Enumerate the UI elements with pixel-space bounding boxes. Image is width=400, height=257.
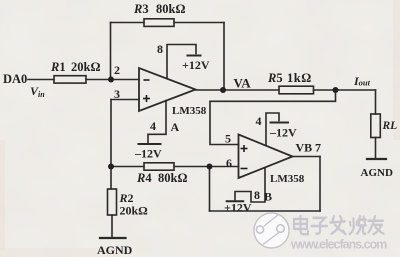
wire: DA0 input lead (28, 79, 54, 81)
svg-text:8: 8 (157, 42, 163, 56)
power +12V bar (op-amp A pin 8) (188, 55, 201, 57)
wire: feedback up to pin 6 node (209, 167, 211, 212)
svg-text:www.elecfans.com: www.elecfans.com (290, 238, 387, 252)
resistor R4 (144, 163, 174, 170)
wire: R5 to Iout corner (314, 89, 376, 91)
svg-text:AGND: AGND (361, 167, 393, 179)
node: pin 6 feedback junction (207, 164, 213, 170)
wire: R4 junction to R4 (111, 166, 144, 168)
svg-text:R5: R5 (267, 71, 283, 85)
wire: R3 top right segment (174, 22, 224, 24)
op-amp A plus sign (143, 95, 150, 102)
svg-text:3: 3 (114, 87, 120, 101)
op-amp U1B triangle (239, 135, 293, 179)
power -12V bar (op-amp A pin 4) (139, 143, 161, 145)
you (369, 216, 384, 234)
svg-text:8: 8 (254, 188, 260, 202)
resistor R2 (108, 189, 117, 215)
svg-text:R3: R3 (133, 2, 149, 16)
op-amp A minus sign (144, 79, 150, 81)
wire: node to R3 left vertical (110, 23, 112, 80)
faint scan tint right edge (393, 0, 400, 140)
svg-text:2: 2 (114, 63, 120, 77)
wire: Iout corner down to RL (375, 90, 377, 114)
svg-text:20kΩ: 20kΩ (71, 60, 100, 74)
wire: RL to AGND (375, 138, 377, 160)
wire: pin 4 vertical (148, 101, 166, 143)
svg-text:–12V: –12V (269, 126, 297, 140)
power +12V bar (op-amp B pin 8) (227, 200, 244, 202)
op-amp B plus sign (241, 145, 248, 152)
wire: R2 to AGND (111, 215, 113, 238)
wire: op-amp A output to R5 (196, 89, 280, 91)
wire: R3 right vertical down to node VA (223, 23, 225, 91)
svg-text:DA0: DA0 (3, 72, 27, 86)
op-amp B minus sign (241, 168, 248, 170)
wire: feedback right vertical (319, 157, 321, 212)
svg-text:20kΩ: 20kΩ (120, 204, 149, 218)
svg-text:+12V: +12V (182, 58, 210, 72)
svg-text:4: 4 (256, 114, 262, 128)
svg-text:80kΩ: 80kΩ (158, 171, 187, 185)
wire: Iout node down and left to pin 5 (210, 90, 336, 145)
faint scan tint left edge (0, 140, 5, 250)
svg-text:R1: R1 (50, 60, 66, 74)
wire: R3 top left segment (111, 22, 145, 24)
wire: pin 8 vertical (167, 45, 196, 79)
faint scan tint bottom-left (0, 248, 120, 257)
svg-text:4: 4 (150, 119, 156, 133)
wire: R4 to op-amp B pin 6 (174, 166, 239, 168)
svg-text:1kΩ: 1kΩ (287, 71, 312, 85)
ground AGND left bar (100, 237, 126, 239)
svg-text:B: B (264, 190, 272, 204)
node: pin 2 junction (108, 77, 114, 83)
node: VA (220, 87, 226, 93)
resistor R1 (54, 76, 86, 83)
wire: pin 3 vertical down to R4 junction (110, 100, 112, 190)
wire: pin 8 of op-amp B to +12V (235, 169, 265, 203)
svg-text:LM358: LM358 (270, 173, 305, 185)
wire: op-amp A pin 3 horizontal (111, 99, 139, 101)
wire: op-amp B output pin 7 (293, 156, 321, 158)
wire: R1 to op-amp A pin 2 (86, 79, 139, 81)
svg-text:+12V: +12V (224, 201, 252, 215)
svg-text:VB: VB (296, 141, 313, 155)
wire: pin 4 vertical (op-amp B) (266, 113, 279, 145)
dian (294, 216, 308, 234)
resistor R5 (279, 86, 314, 94)
svg-text:LM358: LM358 (172, 105, 207, 117)
watermark chinese text (hand-drawn strokes) (294, 216, 384, 234)
svg-text:RL: RL (382, 120, 398, 132)
svg-text:R4: R4 (136, 171, 152, 185)
zi (312, 218, 328, 234)
resistor R3 (144, 19, 174, 27)
svg-text:A: A (171, 120, 180, 134)
node: R4 / R2 junction (108, 164, 114, 170)
wire: feedback bottom horizontal (210, 210, 321, 212)
svg-text:5: 5 (225, 132, 231, 146)
shao (350, 216, 367, 234)
ground AGND right bar (367, 158, 386, 160)
watermark logo circle (254, 213, 289, 248)
power -12V bar (op-amp B pin 4) (271, 122, 289, 124)
op-amp U1A triangle (139, 68, 196, 111)
svg-text:–12V: –12V (134, 147, 162, 161)
svg-text:VA: VA (234, 76, 252, 91)
svg-text:AGND: AGND (97, 243, 133, 257)
svg-text:80kΩ: 80kΩ (156, 2, 185, 16)
node: Iout (333, 87, 339, 93)
fa (331, 216, 346, 234)
svg-text:7: 7 (315, 141, 321, 155)
resistor RL (371, 114, 381, 138)
svg-text:6: 6 (226, 156, 232, 170)
